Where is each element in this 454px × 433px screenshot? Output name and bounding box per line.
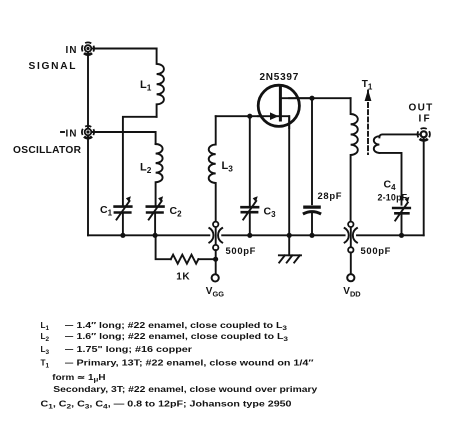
ground (chassis): [279, 255, 301, 262]
junction: source at bus: [287, 233, 292, 238]
junction: drain / 28pF: [309, 96, 314, 101]
svg-text:1K: 1K: [176, 272, 190, 283]
wire: vertical between IN SIGNAL and IN OSCILLATOR terminals: [87, 49, 89, 236]
wire: feedthrough to VDD terminal: [350, 252, 352, 273]
junction: resistor at VGG line: [213, 257, 218, 262]
wire: secondary bottom to C4: [379, 153, 401, 205]
feedthrough capacitor 500pF (gate/VGG): [209, 222, 222, 251]
wire: secondary top to OUT terminal: [379, 134, 419, 137]
ground bus right segment: [357, 234, 424, 236]
svg-text:1.75" long; #16 copper: 1.75" long; #16 copper: [77, 345, 194, 354]
junction: gate / C3: [247, 114, 252, 119]
svg-text:IN: IN: [66, 128, 78, 139]
junction: C2/L2/resistor at bus: [153, 233, 158, 238]
svg-text:—: —: [65, 345, 74, 354]
junction: C3 at bus: [247, 233, 252, 238]
node IN OSCILLATOR terminal: [82, 126, 94, 138]
transformer T1 primary winding: [351, 98, 358, 221]
svg-text:—: —: [65, 359, 74, 368]
svg-text:28pF: 28pF: [318, 190, 343, 201]
svg-text:IN: IN: [66, 45, 78, 56]
wire: drain lead to T1 primary: [289, 97, 350, 99]
wire: feedthrough to VGG terminal: [215, 250, 217, 273]
capacitor 28pF: [303, 98, 321, 235]
node OUT IF terminal: [418, 128, 430, 140]
ground bus (chassis line) left segment: [88, 234, 209, 236]
capacitor C4 (variable): [392, 197, 411, 236]
svg-text:—: —: [65, 321, 74, 330]
inductor L1: [157, 49, 164, 117]
wire: bus drop to 1K resistor: [156, 235, 171, 259]
capacitor C2 (variable): [146, 196, 165, 219]
capacitor C1 (variable): [113, 196, 132, 219]
svg-text:500pF: 500pF: [361, 245, 392, 256]
svg-text:2-10pF: 2-10pF: [378, 193, 408, 203]
svg-text:—: —: [65, 332, 74, 341]
svg-text:2N5397: 2N5397: [260, 72, 300, 83]
resistor R1 1K: [171, 255, 199, 264]
ground bus middle segment: [222, 234, 344, 236]
svg-text:SIGNAL: SIGNAL: [29, 61, 78, 72]
junction: C4 at bus: [399, 233, 404, 238]
wire: oscillator input to L2 top: [88, 132, 156, 144]
node VDD terminal: [347, 274, 354, 281]
svg-text:OUT: OUT: [409, 103, 434, 114]
wire: C1 to ground bus: [122, 214, 124, 236]
feedthrough capacitor 500pF (drain/VDD): [345, 222, 357, 253]
inductor L3: [209, 116, 216, 221]
tick before oscillator IN: [61, 131, 64, 133]
transistor Q1 2N5397: [258, 85, 312, 128]
transformer T1 core (adjustable, dashed with arrow): [365, 90, 372, 155]
wire: L1 bottom jog to C1 branch: [123, 117, 157, 205]
wire: gate lead from L3 node to transistor: [216, 115, 290, 117]
node VGG terminal: [212, 274, 219, 281]
junction: 28pF at bus: [309, 233, 314, 238]
svg-text:OSCILLATOR: OSCILLATOR: [13, 145, 82, 156]
wire: signal input terminal to L1 top: [88, 48, 157, 50]
inductor L2: [156, 144, 163, 205]
junction: C1 at bus: [120, 233, 125, 238]
wire: source lead down to bus and ground: [288, 116, 290, 255]
transformer T1 secondary winding: [374, 136, 380, 153]
svg-text:500pF: 500pF: [226, 245, 257, 256]
capacitor C3 (variable): [240, 116, 259, 235]
wire: C2 to ground bus: [154, 214, 156, 236]
node IN SIGNAL terminal: [82, 42, 94, 54]
svg-text:Primary, 13T; #22 enamel, clos: Primary, 13T; #22 enamel, close wound on…: [77, 359, 314, 368]
svg-text:IF: IF: [419, 114, 432, 125]
wire: resistor to VGG line: [198, 258, 215, 260]
svg-text:Secondary, 3T; #22 enamel, clo: Secondary, 3T; #22 enamel, close wound o…: [53, 385, 318, 394]
wire: OUT terminal down to bus: [423, 139, 425, 235]
